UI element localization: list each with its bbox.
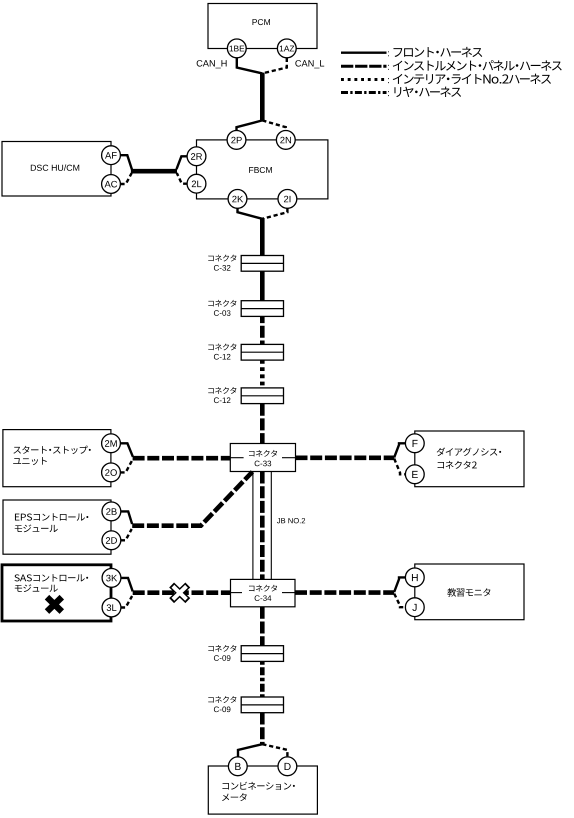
label JB NO.2	[277, 518, 305, 523]
wire 2I to trunk (dashed)	[262, 208, 287, 219]
wire 3K to junction (solid)	[121, 578, 133, 592]
terminal 3L	[102, 598, 121, 617]
bus start-stop to C-33 (dashed)	[133, 456, 231, 461]
connector C-32	[241, 256, 283, 272]
module training monitor box	[415, 564, 524, 620]
wire trunk to B (solid)	[238, 744, 262, 757]
label CAN_H	[197, 60, 227, 68]
terminal 2R	[187, 147, 206, 166]
legend: interior light No.2 harness sample line	[341, 78, 387, 81]
terminal AC	[102, 175, 121, 194]
module FBCM box	[197, 140, 328, 199]
wire CAN_L from 1AZ to trunk (dashed)	[262, 58, 287, 74]
wire AF to twisted pair (solid)	[120, 155, 131, 169]
terminal 2I	[278, 190, 297, 209]
fault X mark inside SAS module	[47, 597, 62, 611]
terminal 1AZ	[277, 39, 296, 58]
terminal B	[228, 757, 247, 776]
label connector C-32	[208, 255, 236, 271]
terminal 2B	[102, 502, 121, 521]
connector C-09 lower	[241, 697, 283, 713]
terminal H	[405, 568, 424, 587]
legend: rear harness sample line	[341, 91, 387, 94]
bus trunk C-12 to C-33 (dashed)	[260, 404, 265, 444]
bus C-34 to training monitor (dashed)	[295, 590, 394, 595]
bus trunk C-09 to C-09 (rear harness, dash-dot)	[260, 661, 265, 697]
terminal 2M	[102, 434, 121, 453]
terminal J	[405, 598, 424, 617]
label connector C-12 lower	[208, 387, 236, 403]
terminal 2L	[187, 174, 206, 193]
module EPS control module box	[3, 500, 111, 554]
connector C-34 box	[231, 579, 296, 606]
wire junction to J (dashed)	[394, 594, 405, 608]
wire 2O to junction (dashed)	[120, 460, 132, 473]
bus trunk C-34 to C-09 (dashed)	[260, 607, 265, 646]
terminal 2D	[102, 531, 121, 550]
module SAS control module box (failed, thick border)	[2, 565, 111, 621]
terminal 2O	[102, 463, 121, 482]
wire junction to H (solid)	[394, 577, 405, 592]
bus trunk FBCM to C-32 (solid)	[260, 218, 265, 256]
bus trunk C-12 to C-12 (interior light No.2 harness, dotted)	[260, 360, 265, 388]
wire pair to 2L (dashed)	[177, 173, 188, 184]
wire 2M to junction (solid)	[120, 443, 132, 457]
connector C-03	[241, 301, 283, 317]
label connector C-03	[208, 300, 236, 316]
legend label: front harness	[388, 47, 482, 57]
connector C-09 upper	[241, 646, 283, 662]
module diagnosis connector 2 box	[415, 431, 524, 487]
wire CAN_H from 1BE to trunk (solid)	[237, 58, 262, 74]
wire junction to E (dashed)	[394, 459, 405, 475]
wire 2D to junction (dashed)	[121, 529, 132, 540]
legend: front harness sample line	[341, 52, 387, 54]
bus trunk C-32 to C-03 (solid)	[260, 271, 265, 301]
module PCM box	[208, 4, 317, 49]
legend label: interior light No.2 harness	[388, 74, 551, 84]
bus DSC to FBCM thick pair	[131, 169, 177, 174]
junction block JB NO.2 right rail	[270, 472, 272, 580]
connector C-12 upper	[241, 344, 283, 360]
terminal 1BE	[227, 39, 246, 58]
legend label: instrument panel harness	[388, 60, 562, 70]
bus trunk C-03 to C-12 (instrument panel harness, dashed)	[260, 316, 265, 345]
wire trunk to D (dashed)	[262, 744, 287, 757]
label connector C-09 lower	[208, 696, 236, 712]
wire AC to twisted pair (dashed)	[120, 173, 131, 184]
connector C-33 box	[230, 444, 295, 472]
wire 2B to junction (solid)	[121, 511, 132, 524]
module combination meter box	[208, 766, 317, 814]
wire trunk to 2P (solid)	[237, 120, 263, 130]
module DSC HU/CM box	[2, 142, 111, 197]
terminal 2K	[228, 190, 247, 209]
terminal D	[278, 757, 297, 776]
terminal 2N	[276, 131, 295, 150]
label connector C-12 upper	[208, 344, 236, 360]
junction block JB NO.2 left rail	[252, 472, 254, 580]
wire junction to F (solid)	[394, 443, 405, 457]
wire 3L to junction (dashed)	[121, 596, 132, 608]
bus C-33 to diagnosis connector (dashed)	[296, 455, 395, 460]
wire pair to 2R (solid)	[177, 156, 188, 169]
bus trunk C-09 to combination meter (dashed)	[260, 713, 265, 745]
legend label: rear harness	[388, 87, 461, 97]
legend: instrument panel harness sample line	[341, 65, 387, 68]
terminal AF	[102, 146, 121, 165]
bus trunk PCM to FBCM (front harness, solid)	[260, 73, 265, 122]
fault X mark on SAS wire	[172, 585, 188, 601]
wire 2K to trunk (solid)	[238, 208, 263, 219]
label connector C-09 upper	[208, 645, 236, 661]
module start-stop unit box	[3, 430, 111, 487]
terminal E	[405, 465, 424, 484]
label CAN_L	[295, 60, 324, 68]
bus trunk C-33 to C-34 through JB NO.2 (dashed)	[260, 472, 265, 580]
bus SAS to C-34 (dashed)	[133, 590, 231, 595]
terminal 2P	[227, 131, 246, 150]
terminal F	[405, 434, 424, 453]
wire trunk to 2N (dashed)	[262, 120, 286, 130]
bus EPS to C-33 (dashed, with diagonal)	[132, 472, 252, 526]
terminal 3K	[102, 569, 121, 588]
connector C-12 lower	[241, 388, 283, 404]
